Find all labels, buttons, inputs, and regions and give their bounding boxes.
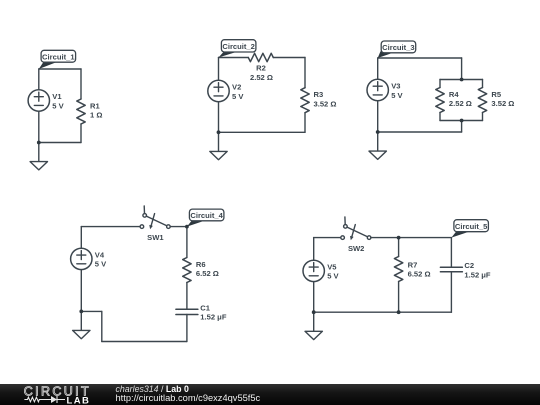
wire top rail to switch bbox=[314, 237, 341, 239]
node label Circuit_2 bbox=[219, 40, 256, 58]
wire left stub below V2 bbox=[218, 102, 220, 133]
svg-text:1.52 μF: 1.52 μF bbox=[200, 313, 227, 322]
svg-text:5 V: 5 V bbox=[232, 92, 244, 101]
wire right branch lower bbox=[80, 124, 82, 143]
wire R7 top stub bbox=[398, 238, 400, 257]
junction dot circuit4 ground node bbox=[79, 310, 83, 314]
wire left stub above V2 bbox=[218, 58, 220, 81]
svg-text:V1: V1 bbox=[52, 92, 62, 101]
wire top rail right of R2 bbox=[273, 57, 305, 59]
wire bottom rail circuit3 bbox=[378, 131, 462, 133]
svg-text:R7: R7 bbox=[408, 260, 418, 269]
wire switch to C2 node bbox=[371, 237, 452, 239]
wire switch to R6 node bbox=[170, 226, 187, 228]
wire R4 bottom stub bbox=[439, 113, 441, 121]
svg-text:1 Ω: 1 Ω bbox=[90, 111, 102, 120]
wire bottom rail circuit5 bbox=[314, 311, 452, 313]
wire top rail to switch bbox=[81, 226, 140, 228]
switch SW2 bbox=[341, 217, 371, 240]
svg-text:C2: C2 bbox=[464, 261, 474, 270]
wire right branch upper bbox=[304, 58, 306, 88]
wire left stub below V3 bbox=[377, 101, 379, 132]
voltage source V5 bbox=[303, 260, 324, 281]
voltage source V2 bbox=[208, 80, 229, 101]
ground circuit1 bbox=[30, 143, 47, 170]
svg-text:2.52 Ω: 2.52 Ω bbox=[250, 73, 273, 82]
junction dot circuit5 R7 bottom bbox=[397, 310, 401, 314]
wire bottom riser bbox=[101, 311, 103, 341]
svg-text:SW2: SW2 bbox=[348, 244, 364, 253]
capacitor C1 bbox=[176, 309, 198, 314]
capacitor C2 bbox=[440, 267, 462, 272]
resistor R5 bbox=[478, 88, 486, 113]
wire right branch upper bbox=[80, 69, 82, 99]
voltage source V1 bbox=[28, 90, 49, 111]
junction dot circuit3 block bottom bbox=[460, 119, 464, 123]
node label Circuit_5 bbox=[451, 220, 488, 238]
wire right branch lower bbox=[304, 113, 306, 133]
wire R6 top stub bbox=[186, 227, 188, 258]
wire left stub below V1 bbox=[38, 111, 40, 142]
wire C1 down bbox=[186, 315, 188, 342]
svg-text:Circuit_3: Circuit_3 bbox=[382, 43, 415, 52]
CircuitLab logo bbox=[18, 384, 118, 405]
wire R5 top stub bbox=[482, 80, 484, 88]
wire left stub above V3 bbox=[377, 58, 379, 79]
wire C2 bottom stub bbox=[450, 272, 452, 313]
wire bottom rail circuit1 bbox=[39, 142, 81, 144]
wire left stub above V4 bbox=[80, 227, 82, 249]
ground circuit2 bbox=[210, 132, 227, 159]
wire feed down to parallel block bbox=[461, 58, 463, 80]
svg-text:V4: V4 bbox=[95, 250, 105, 259]
resistor R2 bbox=[248, 53, 273, 61]
svg-text:5 V: 5 V bbox=[52, 101, 64, 110]
node label Circuit_3 bbox=[378, 41, 416, 58]
wire block drop to bottom rail bbox=[461, 121, 463, 133]
svg-text:R2: R2 bbox=[256, 64, 266, 73]
svg-text:LAB: LAB bbox=[67, 395, 91, 405]
resistor R4 bbox=[436, 88, 444, 113]
voltage source V4 bbox=[71, 248, 92, 269]
resistor R3 bbox=[301, 88, 309, 113]
junction dot circuit1 bottom bbox=[37, 141, 41, 145]
wire parallel top bar bbox=[440, 79, 483, 81]
wire top rail circuit1 bbox=[39, 68, 81, 70]
svg-text:1.52 μF: 1.52 μF bbox=[464, 270, 491, 279]
junction dot circuit2 bottom bbox=[217, 130, 221, 134]
junction dot circuit5 ground node bbox=[312, 310, 316, 314]
svg-text:R6: R6 bbox=[196, 260, 206, 269]
ground circuit4 bbox=[73, 311, 90, 338]
wire C2 top stub bbox=[450, 238, 452, 268]
svg-text:R5: R5 bbox=[491, 90, 501, 99]
svg-text:R4: R4 bbox=[449, 90, 459, 99]
svg-text:3.52 Ω: 3.52 Ω bbox=[314, 100, 337, 109]
svg-text:2.52 Ω: 2.52 Ω bbox=[449, 99, 472, 108]
wire left stub below V5 bbox=[313, 282, 315, 313]
svg-text:R1: R1 bbox=[90, 101, 100, 110]
svg-text:Circuit_5: Circuit_5 bbox=[455, 222, 488, 231]
wire top rail circuit3 bbox=[378, 57, 462, 59]
svg-text:5 V: 5 V bbox=[391, 91, 403, 100]
node label Circuit_1 bbox=[39, 50, 76, 69]
wire left stub above V1 bbox=[38, 69, 40, 90]
wire bottom rail circuit4 bbox=[102, 341, 187, 343]
svg-text:3.52 Ω: 3.52 Ω bbox=[491, 99, 514, 108]
ground circuit5 bbox=[305, 312, 322, 339]
svg-text:C1: C1 bbox=[200, 303, 210, 312]
svg-text:Circuit_1: Circuit_1 bbox=[42, 52, 75, 61]
svg-text:SW1: SW1 bbox=[147, 233, 164, 242]
svg-text:V3: V3 bbox=[391, 82, 400, 91]
wire to ground node bbox=[81, 310, 102, 312]
wire R4 top stub bbox=[439, 80, 441, 88]
wire bottom rail circuit2 bbox=[219, 131, 306, 133]
junction dot circuit5 R7 top bbox=[397, 236, 401, 240]
wire R6 to C1 bbox=[186, 283, 188, 310]
svg-text:6.52 Ω: 6.52 Ω bbox=[408, 270, 431, 279]
svg-text:Circuit_2: Circuit_2 bbox=[222, 42, 255, 51]
wire left stub above V5 bbox=[313, 238, 315, 261]
wire left stub below V4 bbox=[80, 270, 82, 312]
ground circuit3 bbox=[369, 132, 386, 159]
wire R5 bottom stub bbox=[482, 113, 484, 121]
wire top rail left of R2 bbox=[219, 57, 249, 59]
svg-text:5 V: 5 V bbox=[95, 260, 107, 269]
svg-text:R3: R3 bbox=[314, 90, 324, 99]
svg-text:V5: V5 bbox=[327, 262, 337, 271]
svg-text:Circuit_4: Circuit_4 bbox=[190, 211, 223, 220]
node label Circuit_4 bbox=[187, 209, 224, 227]
junction dot circuit4 R6 node bbox=[185, 225, 189, 229]
wire R7 bottom stub bbox=[398, 282, 400, 313]
svg-text:5 V: 5 V bbox=[327, 272, 339, 281]
resistor R7 bbox=[394, 257, 402, 282]
junction dot circuit3 block top bbox=[460, 78, 464, 82]
resistor R6 bbox=[183, 258, 191, 283]
voltage source V3 bbox=[367, 79, 388, 100]
switch SW1 bbox=[140, 206, 170, 229]
resistor R1 bbox=[77, 99, 85, 124]
junction dot circuit3 bottom bbox=[376, 130, 380, 134]
svg-text:V2: V2 bbox=[232, 83, 241, 92]
wire parallel bottom bar bbox=[440, 120, 483, 122]
svg-text:6.52 Ω: 6.52 Ω bbox=[196, 269, 219, 278]
